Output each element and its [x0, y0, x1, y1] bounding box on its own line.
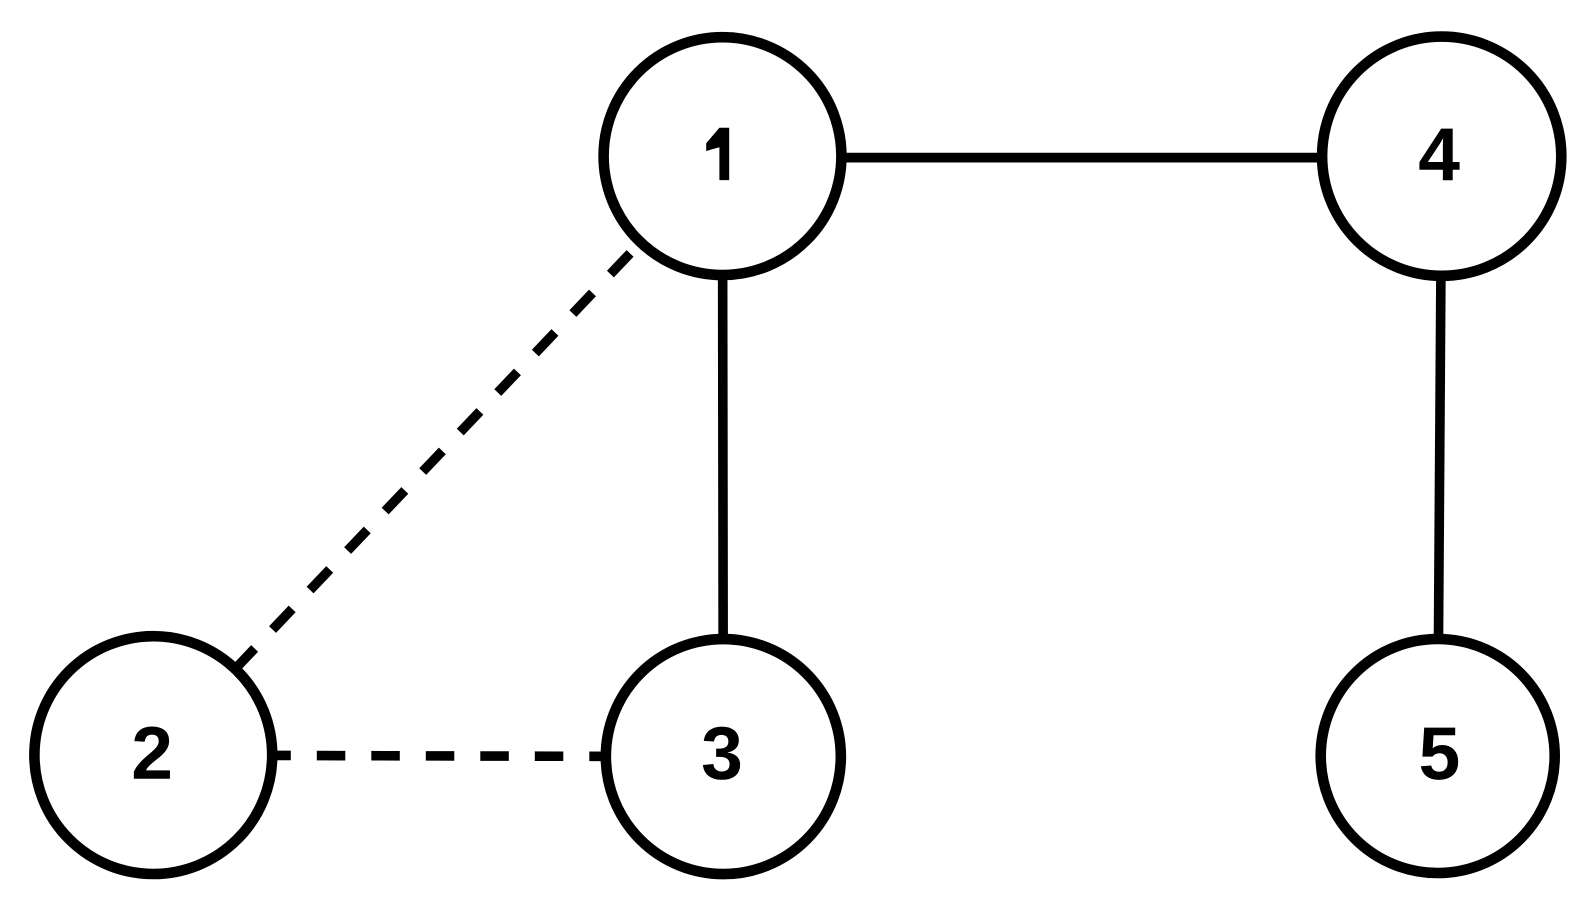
edge 1-2 (dashed wire) [153, 156, 722, 755]
node 5 label "5" [1421, 728, 1458, 780]
edge 1-3 (solid wire) [718, 156, 728, 757]
node 3 circle [606, 639, 841, 874]
edge 4-5 (solid wire) [1438, 156, 1442, 756]
node 3 [606, 639, 841, 874]
edge 2-3 (dashed wire) [153, 755, 723, 757]
node 3 label "3" [703, 727, 740, 780]
node 1 [604, 37, 842, 275]
node 2 circle [34, 636, 272, 874]
node 4 [1322, 37, 1561, 276]
node 4 label "4" [1419, 129, 1459, 181]
node 4 circle [1322, 37, 1561, 276]
node 1 circle [604, 37, 842, 275]
edge 1-4 (solid wire) [723, 153, 1442, 163]
node 5 circle [1321, 639, 1555, 873]
node 2 [34, 636, 272, 874]
node 1 label "1" [706, 128, 729, 180]
node 5 [1321, 639, 1555, 873]
node 2 label "2" [134, 726, 170, 778]
